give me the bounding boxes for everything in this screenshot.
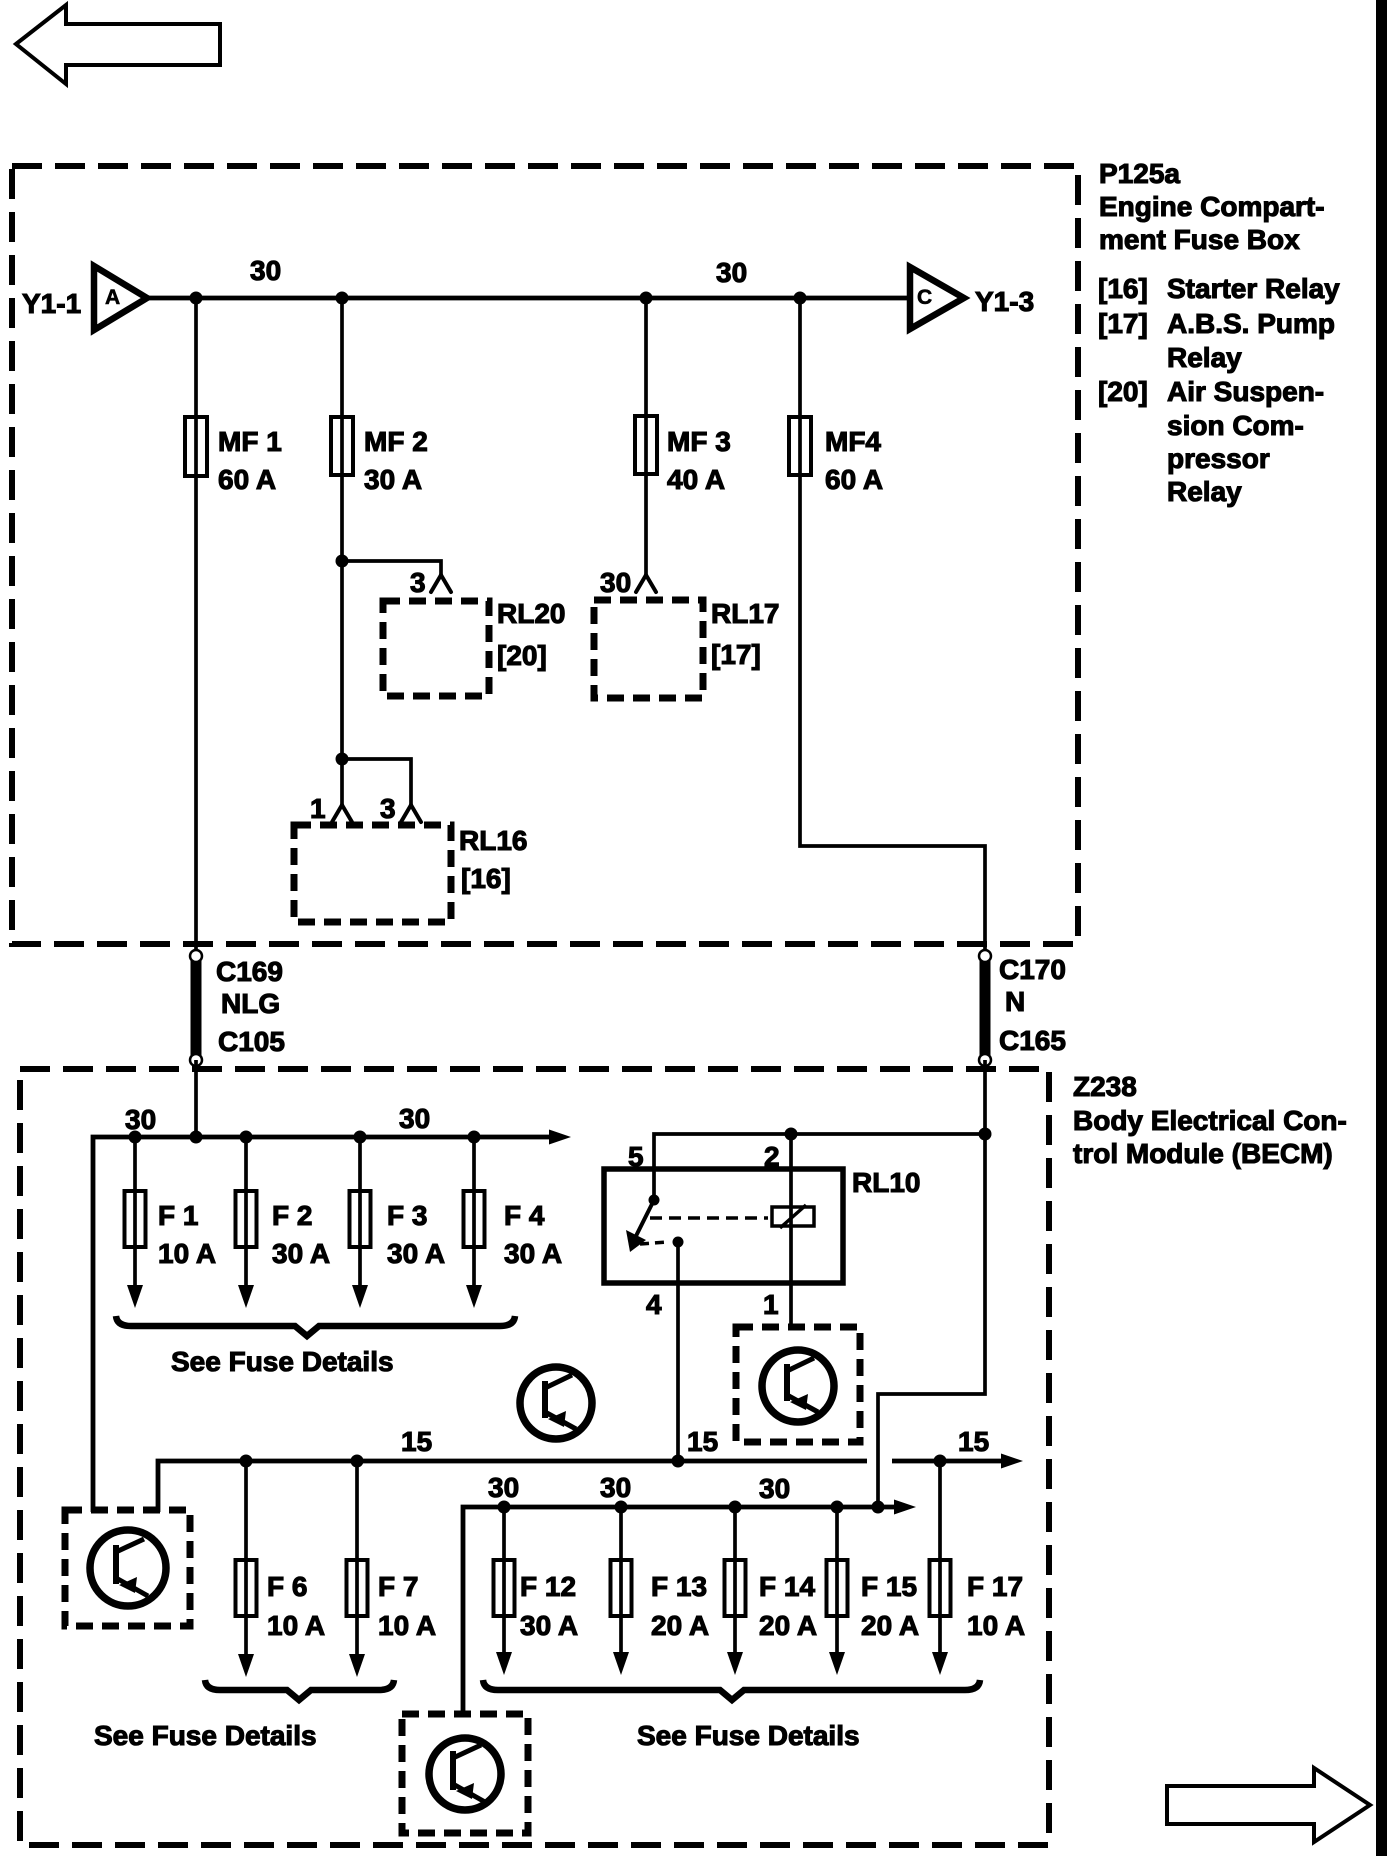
svg-text:30: 30 xyxy=(399,1103,430,1134)
wire RL10 pin4 down to 15 bus xyxy=(676,1242,680,1461)
svg-text:30 A: 30 A xyxy=(364,464,422,495)
wire 30-bus feed from left circle box xyxy=(91,1137,95,1512)
node junction F15 xyxy=(831,1501,844,1514)
relay RL10 (solid box) xyxy=(604,1169,843,1283)
svg-text:60 A: 60 A xyxy=(218,464,276,495)
brace under F6-F7 xyxy=(205,1680,394,1700)
node junction MF1 on bus xyxy=(190,292,203,305)
node junction F1 xyxy=(129,1131,142,1144)
svg-text:pressor: pressor xyxy=(1167,443,1270,474)
node junction F4 xyxy=(468,1131,481,1144)
svg-text:N: N xyxy=(1005,986,1025,1017)
semiconductor switch in dashed box (bottom middle) xyxy=(402,1714,528,1833)
brace under F12-F17 xyxy=(483,1680,980,1700)
svg-text:F 7: F 7 xyxy=(378,1571,418,1602)
text block Z238 label (right column) xyxy=(1073,1071,1347,1169)
fuse MF3 40A xyxy=(635,416,731,495)
svg-text:15: 15 xyxy=(958,1426,989,1457)
svg-text:10 A: 10 A xyxy=(378,1610,436,1641)
semiconductor switch in dashed box (below RL10 pin1) xyxy=(736,1327,860,1442)
wire RL10 top feed (pin5/pin2 bus) xyxy=(654,1134,985,1200)
fuse F12 30A with output arrow xyxy=(494,1507,579,1675)
svg-text:Y1-3: Y1-3 xyxy=(975,286,1034,317)
svg-text:30: 30 xyxy=(125,1104,156,1135)
svg-text:P125a: P125a xyxy=(1099,158,1180,189)
node junction F3 xyxy=(354,1131,367,1144)
node junction F12 xyxy=(498,1501,511,1514)
svg-text:MF4: MF4 xyxy=(825,426,881,457)
fuse F4 30A with output arrow xyxy=(464,1137,563,1308)
svg-text:15: 15 xyxy=(401,1426,432,1457)
svg-text:F 13: F 13 xyxy=(651,1571,707,1602)
fuse MF4 60A xyxy=(789,417,883,495)
wire bus 30 (bottom fuse row) with arrow xyxy=(463,1500,916,1717)
svg-text:[20]: [20] xyxy=(497,640,547,671)
fuse F1 10A with output arrow xyxy=(125,1137,217,1308)
svg-text:[16]: [16] xyxy=(1098,273,1148,304)
fuse F2 30A with output arrow xyxy=(236,1137,331,1308)
svg-text:30: 30 xyxy=(250,255,281,286)
svg-text:30 A: 30 A xyxy=(387,1238,445,1269)
svg-text:Relay: Relay xyxy=(1167,476,1242,507)
node junction F2 xyxy=(240,1131,253,1144)
semiconductor switch in dashed box (bottom left) xyxy=(65,1510,190,1626)
relay RL20 [20] (dashed outline) xyxy=(383,598,565,696)
wire bus 30 (Z238 top fuse row) with arrow xyxy=(93,1130,571,1513)
svg-text:NLG: NLG xyxy=(221,988,280,1019)
svg-text:trol Module (BECM): trol Module (BECM) xyxy=(1073,1138,1333,1169)
fuse F15 20A with output arrow xyxy=(827,1507,920,1675)
node junction MF2 branch to RL16 pin 3 xyxy=(336,753,349,766)
wire bus 30 (top, P125a) xyxy=(147,296,910,301)
brace under F1-F4 xyxy=(116,1316,515,1336)
svg-text:F 4: F 4 xyxy=(504,1200,545,1231)
connector C170/C165 (thick bar with terminals) xyxy=(979,950,1066,1066)
relay RL10 actuator dashed link to coil xyxy=(650,1216,768,1220)
node junction MF2 branch to RL20 xyxy=(336,555,349,568)
page navigation arrow left (top-left) xyxy=(16,5,220,84)
svg-text:30: 30 xyxy=(600,567,631,598)
svg-text:30: 30 xyxy=(488,1472,519,1503)
svg-text:A: A xyxy=(105,286,120,309)
node junction MF2 on bus xyxy=(336,292,349,305)
fuse F14 20A with output arrow xyxy=(725,1507,818,1675)
svg-text:10 A: 10 A xyxy=(158,1238,216,1269)
svg-text:4: 4 xyxy=(646,1289,662,1320)
svg-text:Air Suspen-: Air Suspen- xyxy=(1167,376,1324,407)
relay RL10 switch arm with tip arrow xyxy=(626,1200,654,1252)
connector triangle C (to Y1-3) xyxy=(910,267,964,329)
wire C169 to F-bus xyxy=(194,1060,198,1137)
pin 3 socket fork (RL20) xyxy=(431,575,451,592)
node junction F14 xyxy=(729,1501,742,1514)
svg-text:1: 1 xyxy=(763,1289,779,1320)
svg-text:[16]: [16] xyxy=(461,863,511,894)
node junction F6 on 15 bus xyxy=(240,1455,253,1468)
svg-text:C105: C105 xyxy=(218,1026,285,1057)
svg-text:30 A: 30 A xyxy=(520,1610,578,1641)
node junction F13 xyxy=(615,1501,628,1514)
svg-text:[17]: [17] xyxy=(711,639,761,670)
fuse MF1 60A xyxy=(185,417,282,495)
fuse F6 10A with output arrow xyxy=(236,1461,326,1677)
svg-text:F 6: F 6 xyxy=(267,1571,307,1602)
svg-text:sion Com-: sion Com- xyxy=(1167,410,1304,441)
svg-text:Engine Compart-: Engine Compart- xyxy=(1099,191,1325,222)
page navigation arrow right (bottom-right) xyxy=(1167,1768,1370,1842)
node junction RL10 pin4 on 15 bus xyxy=(672,1455,685,1468)
node junction pin2 top xyxy=(785,1128,798,1141)
dashed box P125a Engine Compartment Fuse Box xyxy=(12,166,1078,944)
svg-text:10 A: 10 A xyxy=(267,1610,325,1641)
dashed box Z238 Body Electrical Control Module xyxy=(20,1069,1049,1845)
wire branch to RL20 pin 3 xyxy=(342,561,441,576)
svg-text:RL20: RL20 xyxy=(497,598,565,629)
svg-text:30: 30 xyxy=(716,257,747,288)
svg-text:A.B.S. Pump: A.B.S. Pump xyxy=(1167,308,1335,339)
relay RL10 coil (box with slash) xyxy=(772,1205,814,1228)
pin 30 socket fork (RL17) xyxy=(636,575,656,592)
wire bus 15 (left segment with corner down to switch box) xyxy=(158,1461,867,1512)
svg-text:20 A: 20 A xyxy=(861,1610,919,1641)
node junction F7 on 15 bus xyxy=(351,1455,364,1468)
svg-text:[20]: [20] xyxy=(1098,376,1148,407)
pin 3 socket fork (RL16) xyxy=(401,805,421,822)
relay RL10 contact dot pin5 xyxy=(649,1195,660,1206)
wire C165 down to RL10 feed junction xyxy=(983,1060,987,1134)
svg-text:RL16: RL16 xyxy=(459,825,527,856)
page scan edge bar (right margin) xyxy=(1376,0,1387,1856)
svg-text:F 1: F 1 xyxy=(158,1200,198,1231)
node junction C170 column xyxy=(979,1128,992,1141)
svg-text:30: 30 xyxy=(759,1473,790,1504)
svg-text:[17]: [17] xyxy=(1098,308,1148,339)
fuse F3 30A with output arrow xyxy=(350,1137,446,1308)
svg-text:30 A: 30 A xyxy=(272,1238,330,1269)
node junction MF4 on bus xyxy=(794,292,807,305)
node junction F17 on right 15 bus xyxy=(934,1455,947,1468)
svg-text:C165: C165 xyxy=(999,1025,1066,1056)
wire MF4 column (bus down, jog right to C170) xyxy=(800,298,985,953)
node junction MF3 on bus xyxy=(640,292,653,305)
wire MF1 column (bus to connector C169) xyxy=(194,298,198,953)
svg-text:60 A: 60 A xyxy=(825,464,883,495)
relay RL10 contact dot pin4 xyxy=(673,1237,684,1248)
svg-text:3: 3 xyxy=(410,567,426,598)
svg-text:Y1-1: Y1-1 xyxy=(22,288,81,319)
svg-text:F 15: F 15 xyxy=(861,1571,917,1602)
wire MF2 column (bus down to RL16 branch) xyxy=(340,298,344,806)
svg-text:30 A: 30 A xyxy=(504,1238,562,1269)
connector triangle A (from Y1-1) xyxy=(94,266,147,330)
fuse F7 10A with output arrow xyxy=(347,1461,437,1677)
svg-text:20 A: 20 A xyxy=(759,1610,817,1641)
svg-text:30: 30 xyxy=(600,1472,631,1503)
text block P125a legend (right column) xyxy=(1098,158,1340,507)
svg-text:See Fuse Details: See Fuse Details xyxy=(94,1720,317,1751)
svg-text:Starter Relay: Starter Relay xyxy=(1167,273,1340,304)
svg-text:F 12: F 12 xyxy=(520,1571,576,1602)
svg-text:15: 15 xyxy=(687,1426,718,1457)
wire MF3 column (bus down to RL17) xyxy=(644,298,648,576)
svg-text:20 A: 20 A xyxy=(651,1610,709,1641)
svg-text:RL10: RL10 xyxy=(852,1167,920,1198)
svg-text:3: 3 xyxy=(380,793,396,824)
svg-text:MF 2: MF 2 xyxy=(364,426,428,457)
node junction C170 jog wire on 30 bus xyxy=(872,1501,885,1514)
svg-text:MF 1: MF 1 xyxy=(218,426,282,457)
svg-text:See Fuse Details: See Fuse Details xyxy=(637,1720,860,1751)
wire C170 column jog down to bottom 30 bus xyxy=(878,1134,985,1507)
connector C169/C105 (thick bar with terminals) xyxy=(190,950,285,1066)
fuse MF2 30A xyxy=(331,417,428,495)
relay RL16 [16] (dashed outline) xyxy=(294,825,527,922)
svg-text:MF 3: MF 3 xyxy=(667,426,731,457)
node junction C169 wire on fuse bus xyxy=(190,1131,203,1144)
svg-text:F 17: F 17 xyxy=(967,1571,1023,1602)
wire bus 15 (right segment with arrow) xyxy=(892,1454,1023,1469)
svg-text:C169: C169 xyxy=(216,956,283,987)
svg-text:Z238: Z238 xyxy=(1073,1071,1137,1102)
svg-text:40 A: 40 A xyxy=(667,464,725,495)
svg-text:F 3: F 3 xyxy=(387,1200,427,1231)
svg-text:C170: C170 xyxy=(999,954,1066,985)
svg-text:See Fuse Details: See Fuse Details xyxy=(171,1346,394,1377)
relay RL17 [17] (dashed outline) xyxy=(594,598,779,698)
pin 1 socket fork (RL16) xyxy=(332,805,352,822)
fuse F17 10A with output arrow xyxy=(930,1461,1026,1675)
wire RL10 pin2 through coil to pin1 xyxy=(789,1134,793,1327)
svg-text:RL17: RL17 xyxy=(711,598,779,629)
svg-text:ment Fuse Box: ment Fuse Box xyxy=(1099,224,1300,255)
semiconductor switch symbol (standalone, left of RL10 box) xyxy=(520,1367,592,1439)
svg-text:10 A: 10 A xyxy=(967,1610,1025,1641)
svg-text:Relay: Relay xyxy=(1167,342,1242,373)
svg-text:F 14: F 14 xyxy=(759,1571,815,1602)
wire branch to RL16 pin 3 xyxy=(342,759,411,806)
fuse F13 20A with output arrow xyxy=(611,1507,710,1675)
svg-text:F 2: F 2 xyxy=(272,1200,312,1231)
svg-text:1: 1 xyxy=(310,793,326,824)
svg-text:C: C xyxy=(917,286,932,309)
relay RL10 contact 4 dashed bit xyxy=(640,1242,668,1244)
svg-text:Body Electrical Con-: Body Electrical Con- xyxy=(1073,1105,1347,1136)
